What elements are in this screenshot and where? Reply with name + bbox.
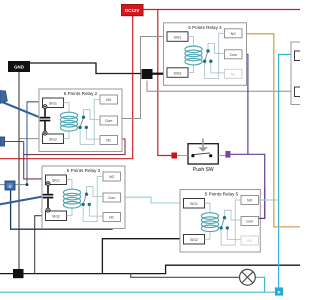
- op-amp U4 relay 5 Points Relay 4: [164, 23, 247, 86]
- node GND junction square: [142, 69, 153, 79]
- wire black bottom rail: [0, 265, 300, 273]
- svg-text:5 Points Relay 5: 5 Points Relay 5: [205, 192, 239, 197]
- op-amp U5 relay 5 Points Relay 5: [180, 188, 266, 254]
- node junction dot at B: [26, 183, 29, 186]
- svg-text:B: B: [9, 184, 12, 189]
- wire steelblue diagonal to relay3 capacitor: [0, 197, 43, 205]
- wire maroon relay2 NC to connector J2 and relay3 SIG1: [4, 139, 125, 179]
- svg-text:P: P: [278, 290, 281, 295]
- wire navy connector B to relay3 NC: [11, 190, 112, 229]
- op-amp U3 relay 5 Points Relay 3: [42, 166, 125, 229]
- svg-text:DC12V: DC12V: [125, 8, 139, 13]
- svg-text:5 Points Relay 3: 5 Points Relay 3: [67, 168, 101, 173]
- wire black node to relay4 SIG2: [153, 73, 168, 75]
- lamp LA1: [240, 269, 256, 285]
- svg-text:5 Points Relay 4: 5 Points Relay 4: [188, 25, 222, 30]
- wire pale cyan relay3 Com to relay5 SIG1: [121, 197, 184, 203]
- node bottom junction square: [13, 269, 24, 278]
- wire black bottom rail to relay5 SIG2: [102, 239, 183, 274]
- ground GND: [8, 61, 30, 72]
- wire gray GND rail to relay2 SIG2: [19, 138, 43, 140]
- wire cyan bottom long rail: [0, 291, 275, 293]
- wire steelblue flag diagonal to relay2 capacitor: [2, 102, 40, 117]
- wire gray relay2 Com to relay4 SIG1: [118, 37, 168, 119]
- node red connector at Push SW left: [171, 153, 177, 159]
- wire black GND vertical rail: [18, 72, 20, 269]
- wire dark relay3 SIG2 to bottom rail: [35, 216, 46, 274]
- op-amp U2 relay 5 Points Relay 2: [39, 89, 122, 152]
- wire red DC12V top rail: [143, 9, 300, 11]
- connector P bottom right: [275, 287, 283, 295]
- wire orange relay4 NO to right edge: [242, 34, 300, 227]
- node purple connector at Push SW right: [225, 151, 230, 158]
- wire gray GND node to relay1 SIG2: [147, 81, 295, 92]
- switch SW1 Push SW: [177, 139, 225, 173]
- wire steelblue connector B to relay2 SIG1: [27, 102, 43, 185]
- wire red DC12V to Push SW: [158, 10, 172, 156]
- wire black GND to node: [30, 63, 141, 74]
- wire pale cyan relay5 NO: [259, 199, 279, 201]
- wire cyan lamp to P connector: [255, 277, 265, 292]
- wire gray lamp feed: [131, 274, 240, 278]
- svg-text:GND: GND: [14, 65, 24, 70]
- wire gray through connector B: [0, 184, 27, 186]
- wire red DC12V down-left rail: [0, 16, 133, 159]
- connector B blue box: [5, 181, 15, 190]
- wire cyan relay1 SIG1 vertical to P connector: [279, 55, 295, 288]
- power DC12V: [122, 5, 144, 16]
- connector J2 left edge blue box: [0, 137, 5, 146]
- svg-text:Push SW: Push SW: [193, 167, 214, 173]
- wire purple relay4 Com to Push SW and relay5 Com: [230, 54, 264, 218]
- capacitor C3 at relay3 pins: [43, 182, 54, 212]
- svg-text:5 Points Relay 2: 5 Points Relay 2: [64, 91, 98, 96]
- connector blue flag top-left: [0, 91, 7, 104]
- capacitor C2 at relay2 pins: [40, 105, 51, 135]
- op-amp U1 relay 5 Points Relay 1 partial right edge: [291, 42, 320, 105]
